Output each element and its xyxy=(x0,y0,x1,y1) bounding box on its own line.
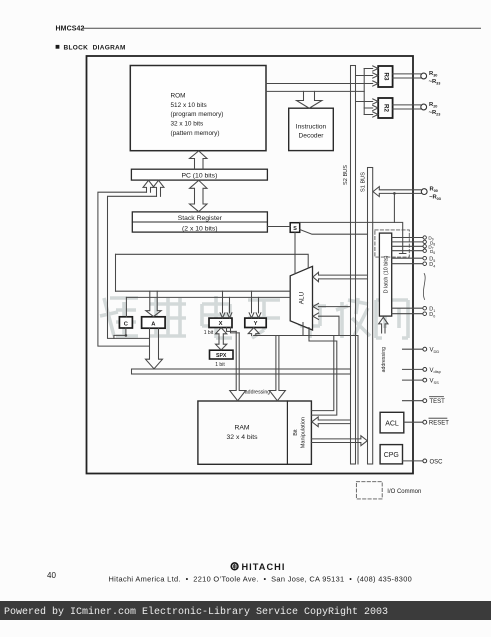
svg-text:VSS: VSS xyxy=(430,379,440,385)
wire CPG to OSC xyxy=(403,460,423,462)
wire C bottom xyxy=(114,328,126,338)
svg-text:SPX: SPX xyxy=(216,353,227,359)
Hitachi logo mark xyxy=(231,563,238,570)
arrow A to bus bar xyxy=(146,328,163,368)
arrow R0 input to S1 bus xyxy=(373,187,421,197)
svg-text:Hitachi America Ltd. • 2210: Hitachi America Ltd. • 2210 O’Toole Ave.… xyxy=(108,574,412,583)
svg-text:D4: D4 xyxy=(429,262,435,268)
pin D0 xyxy=(423,312,427,316)
pin VSS xyxy=(423,378,427,382)
register C xyxy=(119,317,132,328)
arrow into PC left 1 xyxy=(143,180,154,192)
wire D latch out D8 xyxy=(392,241,423,243)
wire R2 output pair xyxy=(393,105,421,109)
svg-text:1 bit: 1 bit xyxy=(204,330,214,336)
wire D latch out D1 xyxy=(392,307,423,309)
svg-text:addressing: addressing xyxy=(381,347,387,372)
pin TEST xyxy=(423,399,427,403)
block Stack Register xyxy=(132,212,267,232)
register Y xyxy=(245,318,266,327)
arrow X to SPX (double headed) xyxy=(216,328,227,350)
svg-text:1 bit: 1 bit xyxy=(215,362,225,368)
svg-text:S: S xyxy=(293,226,297,232)
arrow ROM to PC xyxy=(190,151,208,169)
copyright bar xyxy=(0,601,491,620)
arrow drop into Y 1 xyxy=(249,291,254,318)
ALU xyxy=(290,266,312,330)
svg-text:HITACHI: HITACHI xyxy=(242,562,286,572)
wire ALU low rail xyxy=(254,336,358,465)
svg-text:I/O Common: I/O Common xyxy=(387,489,421,495)
svg-text:~R03: ~R03 xyxy=(429,195,441,202)
svg-text:Vdisp: Vdisp xyxy=(430,368,442,374)
wire D latch out D7 xyxy=(392,245,423,247)
block CPG xyxy=(380,445,402,464)
wire S to ALU xyxy=(294,232,296,273)
wire stub TEST xyxy=(403,400,423,402)
arrow Bit Manipulation to S1 xyxy=(311,436,367,446)
block ROM xyxy=(130,66,266,151)
wire D latch out D0 xyxy=(392,313,423,315)
arrow ALU in 1 from S1 xyxy=(313,272,368,281)
wire R2 input c xyxy=(364,112,378,117)
svg-text:Powered by ICminer.com Electro: Powered by ICminer.com Electronic-Librar… xyxy=(4,606,388,618)
svg-text:Y: Y xyxy=(254,321,258,327)
wire R2 input a xyxy=(356,99,378,104)
pin D4 xyxy=(423,262,427,266)
wire R3 input a xyxy=(364,66,378,71)
svg-text:Bit: Bit xyxy=(293,429,299,436)
wire ALU out 2 to Bit Manipulation xyxy=(309,328,337,416)
svg-text:(program memory): (program memory) xyxy=(171,111,224,118)
wire rail to Bit Manipulation xyxy=(311,336,333,411)
svg-text:512 x 10 bits: 512 x 10 bits xyxy=(171,102,207,109)
svg-text:40: 40 xyxy=(47,571,56,580)
wire stub Vdisp xyxy=(403,368,423,370)
wire H2 register bus upper xyxy=(116,290,291,292)
pin VDD xyxy=(423,347,427,351)
wire S to S1 bus xyxy=(300,230,368,235)
svg-text:D6: D6 xyxy=(430,249,435,255)
wire stub VDD xyxy=(403,348,423,350)
wire R0 to latch common xyxy=(393,193,395,222)
svg-text:~R23: ~R23 xyxy=(429,110,441,117)
svg-text:R2: R2 xyxy=(383,104,390,112)
wire R3 input b xyxy=(356,73,378,78)
arrow Y addressing into RAM xyxy=(269,336,285,401)
svg-text:~R33: ~R33 xyxy=(429,79,441,86)
header rule xyxy=(82,27,482,29)
block ACL xyxy=(380,412,404,433)
arrow into Y bottom xyxy=(248,328,259,336)
wire Stack to S xyxy=(267,226,290,228)
svg-text:Decoder: Decoder xyxy=(299,133,325,140)
svg-text:OSC: OSC xyxy=(430,459,444,465)
svg-text:HMCS42: HMCS42 xyxy=(56,25,85,32)
block D latch xyxy=(379,233,391,316)
bus bar (register output bus) xyxy=(132,369,351,374)
wire R feeder vertical xyxy=(363,69,365,115)
register R2 xyxy=(378,98,392,118)
svg-text:Instruction: Instruction xyxy=(296,124,327,131)
arrow ALU in 3 xyxy=(313,313,339,336)
svg-text:Stack Register: Stack Register xyxy=(178,215,223,222)
wire H1 bus to ALU top xyxy=(116,254,309,268)
wire D latch out D4 xyxy=(392,263,423,265)
arrow into PC left 2 xyxy=(153,180,164,196)
squiggle pin break xyxy=(423,274,425,300)
svg-text:Manipulation: Manipulation xyxy=(301,417,307,448)
svg-text:(2 x 10 bits): (2 x 10 bits) xyxy=(182,225,218,232)
svg-text:R00: R00 xyxy=(430,187,438,194)
wire X to address arrow upper xyxy=(227,328,237,332)
arrow X addressing into RAM xyxy=(230,331,246,400)
wire R3 output pair xyxy=(393,74,421,78)
register A xyxy=(142,317,166,328)
svg-text:BLOCK DIAGRAM: BLOCK DIAGRAM xyxy=(64,45,126,52)
arrow PC to Stack (double headed) xyxy=(190,180,208,211)
wire D latch out D5 xyxy=(392,257,423,259)
svg-text:RESET: RESET xyxy=(429,421,449,427)
arrow drop into X 2 xyxy=(227,297,232,318)
svg-text:S1 BUS: S1 BUS xyxy=(361,172,367,192)
wire PC feed left 1 xyxy=(98,192,149,346)
wire H3 register bus lower xyxy=(126,296,290,298)
pin R00-R03 xyxy=(421,189,427,195)
wire D latch out D6 xyxy=(392,250,423,252)
wire ACL to RESET xyxy=(404,421,423,423)
svg-text:VDD: VDD xyxy=(430,348,440,354)
wire ROM out upper xyxy=(266,83,373,85)
node C junction xyxy=(125,334,128,337)
arrow drop into Y 2 xyxy=(256,297,261,318)
svg-text:PC (10 bits): PC (10 bits) xyxy=(181,173,217,180)
svg-text:32 x 10 bits: 32 x 10 bits xyxy=(171,121,204,128)
wire D latch out D9 xyxy=(392,237,423,239)
bus S2 xyxy=(351,66,356,465)
svg-text:ACL: ACL xyxy=(385,420,399,427)
section bullet xyxy=(56,45,60,49)
wire R3 input c xyxy=(373,81,378,86)
pin D9 xyxy=(423,236,426,239)
wire V1 xyxy=(115,254,117,291)
svg-text:S2 BUS: S2 BUS xyxy=(343,165,349,185)
block RAM xyxy=(198,401,312,464)
pin RESET xyxy=(423,420,427,424)
svg-text:TEST: TEST xyxy=(430,399,446,405)
svg-text:32 x 4 bits: 32 x 4 bits xyxy=(227,434,259,441)
svg-text:CPG: CPG xyxy=(384,452,399,459)
wire ALU out 1 xyxy=(302,323,304,336)
svg-text:D latch (10 bits): D latch (10 bits) xyxy=(383,255,389,293)
svg-text:addressing: addressing xyxy=(245,390,270,396)
bus S1 xyxy=(368,168,373,465)
pin Vdisp xyxy=(423,368,427,372)
arrow addressing into D latch xyxy=(379,317,388,333)
I/O Common legend xyxy=(356,482,382,499)
svg-text:ALU: ALU xyxy=(299,291,306,304)
pin D6 xyxy=(423,249,426,252)
svg-text:ROM: ROM xyxy=(171,92,186,99)
pin R30-R33 xyxy=(421,73,427,79)
svg-text:RAM: RAM xyxy=(234,425,249,432)
pin D1 xyxy=(423,306,427,310)
svg-text:D0: D0 xyxy=(429,312,435,318)
wire S to I/O common xyxy=(300,222,406,253)
node R0 junction xyxy=(393,192,396,195)
register X xyxy=(209,318,232,327)
arrow ALU in 2 from S2 xyxy=(313,303,351,309)
outer boundary box xyxy=(87,56,414,474)
wire ROM out lower xyxy=(266,90,364,92)
pin D8 xyxy=(423,240,426,243)
pin D5 xyxy=(423,256,427,260)
block Instruction Decoder xyxy=(289,108,334,150)
wire R2 input b xyxy=(364,105,378,110)
svg-text:R3: R3 xyxy=(383,73,390,81)
svg-text:R30: R30 xyxy=(429,71,437,78)
arrow into A xyxy=(146,291,161,316)
svg-text:(pattern memory): (pattern memory) xyxy=(171,130,220,137)
I/O common dashed box around D latch top xyxy=(375,230,409,257)
register R3 xyxy=(378,66,392,87)
register S xyxy=(290,223,300,233)
wire PC feed left 2 xyxy=(108,196,157,338)
block PC xyxy=(131,169,267,180)
pin D7 xyxy=(423,245,426,248)
arrow into Instruction Decoder xyxy=(297,91,322,108)
register SPX xyxy=(210,350,234,359)
wire X to address arrow lower xyxy=(231,328,240,333)
wire into C xyxy=(125,297,127,316)
arrow S2 into Bit Manipulation xyxy=(312,417,351,427)
pin OSC xyxy=(423,459,427,463)
wire stub VSS xyxy=(403,379,423,381)
arrow drop into X 1 xyxy=(220,291,225,318)
svg-text:R20: R20 xyxy=(429,102,437,109)
watermark xyxy=(100,296,408,338)
pin R20-R23 xyxy=(421,104,427,110)
svg-text:X: X xyxy=(219,321,223,327)
